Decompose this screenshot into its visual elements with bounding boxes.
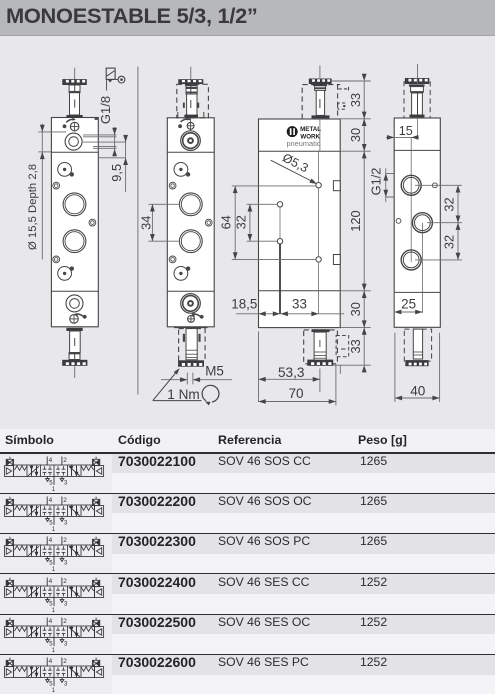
view 2 mounting hole upper left <box>169 182 176 189</box>
svg-text:53,3: 53,3 <box>278 365 304 380</box>
title bar MONOESTABLE 5/3, 1/2" <box>0 0 495 36</box>
view 4 port 1 G1/2 <box>401 175 421 195</box>
view 1 bottom manual lever icon <box>74 313 87 319</box>
table row 5 background bands <box>0 615 112 654</box>
view 3 valve body <box>259 119 341 328</box>
svg-text:3: 3 <box>64 641 68 647</box>
svg-text:2: 2 <box>63 537 67 544</box>
svg-text:40: 40 <box>410 384 426 399</box>
svg-text:2: 2 <box>63 658 67 665</box>
dimensions 64 and 32 <box>219 186 316 260</box>
view 2 mounting hole lower left <box>169 256 176 263</box>
peso 1252 <box>360 576 387 588</box>
view 2 port 2 <box>179 230 202 253</box>
svg-text:G1/2: G1/2 <box>369 168 384 196</box>
svg-text:pneumatic: pneumatic <box>286 139 320 148</box>
referencia SOV 46 SOS CC <box>218 455 311 467</box>
peso 1265 <box>360 455 387 467</box>
codigo 7030022600 <box>118 655 196 669</box>
view 2 valve body <box>167 118 214 327</box>
view 1 bottom solenoid with manual override knob <box>62 328 87 378</box>
referencia SOV 46 SOS OC <box>218 495 311 507</box>
Metal Work pneumatic logo <box>286 119 321 151</box>
svg-text:3: 3 <box>64 561 68 567</box>
table row 2 background bands <box>0 494 112 533</box>
dimension 53,3 <box>259 332 320 403</box>
dimension diameter 15,5 depth 2,8 <box>27 124 66 260</box>
svg-text:2: 2 <box>63 497 67 504</box>
view 2 top solenoid dashed outline <box>177 67 209 118</box>
svg-text:1: 1 <box>52 567 56 572</box>
view 1 mounting hole lower left <box>53 256 60 263</box>
dimension G1/8 port callout <box>83 96 126 158</box>
svg-text:4: 4 <box>49 658 53 665</box>
view 2 bottom manual lever icon <box>191 313 204 319</box>
referencia SOV 46 SOS PC <box>218 535 310 547</box>
table header <box>0 429 495 452</box>
view 1 mounting hole upper left <box>53 182 60 189</box>
view 1 port 4 <box>63 193 86 216</box>
svg-text:64: 64 <box>219 215 234 229</box>
svg-text:3: 3 <box>64 520 68 526</box>
table row 3 separator line <box>0 533 495 534</box>
view 1 pilot exhaust top <box>58 163 72 177</box>
valve symbol row 6 (SOV 46 SES PC) <box>2 655 106 693</box>
table row 1 separator line <box>0 452 495 453</box>
view 3 side notch lower <box>333 255 340 265</box>
dimension G1/2 <box>369 168 409 202</box>
view 1 top manual lever icon <box>63 117 77 128</box>
view 3 hole B <box>277 202 282 207</box>
table row 1 background bands <box>0 454 112 493</box>
svg-text:2: 2 <box>63 457 67 464</box>
dimension 15 <box>386 124 419 140</box>
view 2 pilot port bottom (hatched rim) <box>181 294 201 314</box>
view 1 pilot port circle bottom <box>66 295 83 312</box>
codigo 7030022300 <box>118 534 196 548</box>
dimensions 18,5 and 33 <box>231 297 344 317</box>
svg-text:70: 70 <box>288 386 304 401</box>
view 2 pilot exhaust top <box>174 163 188 177</box>
svg-text:5: 5 <box>49 641 53 647</box>
view 2 top locking screw <box>187 118 194 131</box>
codigo 7030022100 <box>118 454 196 468</box>
table row 6 separator line <box>0 654 495 655</box>
svg-text:32: 32 <box>442 197 457 211</box>
view 3 hole center lines <box>280 151 319 314</box>
view 3 top solenoid dashed outline <box>302 79 348 120</box>
torque note 1 Nm <box>153 367 219 406</box>
dimension 25 <box>394 292 422 316</box>
view 4 top solenoid dashed outline <box>404 64 430 118</box>
svg-text:G1/8: G1/8 <box>98 96 113 124</box>
view 2 pilot port top (hatched rim) <box>181 131 201 151</box>
referencia SOV 46 SES CC <box>218 576 309 588</box>
header Peso <box>358 433 407 447</box>
svg-text:33: 33 <box>348 339 363 353</box>
peso 1252 <box>360 656 387 668</box>
svg-text:1: 1 <box>52 648 56 653</box>
view 4 bottom solenoid dashed outline <box>404 329 431 366</box>
svg-text:3: 3 <box>64 480 68 486</box>
view 3 hole D <box>316 257 321 262</box>
view 4 valve body <box>394 118 440 327</box>
view 4 port center lines <box>411 118 422 313</box>
view 1 pilot exhaust bottom <box>58 267 72 281</box>
table row 3 background bands <box>0 534 112 573</box>
view 4 breather hole right <box>432 183 437 188</box>
svg-text:4: 4 <box>49 457 53 464</box>
svg-text:25: 25 <box>401 297 416 312</box>
svg-text:5: 5 <box>49 520 53 526</box>
svg-text:30: 30 <box>348 128 363 142</box>
dimension M5 <box>161 363 232 384</box>
svg-text:Ø 15,5 Depth 2,8: Ø 15,5 Depth 2,8 <box>27 164 39 250</box>
view 4 port 3 G1/2 <box>412 213 432 233</box>
svg-text:4: 4 <box>49 497 53 504</box>
svg-text:1: 1 <box>52 486 56 491</box>
codigo 7030022400 <box>118 575 196 589</box>
valve symbol row 2 (SOV 46 SOS OC) <box>2 494 106 532</box>
dimension 40 <box>395 333 440 402</box>
valve symbol row 3 (SOV 46 SOS PC) <box>2 534 106 572</box>
svg-text:5: 5 <box>49 682 53 688</box>
svg-text:1 Nm: 1 Nm <box>167 387 199 402</box>
view 3 hole A (5,3) <box>316 183 321 188</box>
header Simbolo <box>5 433 54 447</box>
svg-text:15: 15 <box>399 124 413 138</box>
svg-text:2: 2 <box>63 618 67 625</box>
svg-text:M5: M5 <box>205 363 224 378</box>
svg-text:3: 3 <box>64 601 68 607</box>
dimension diameter 5,3 <box>271 151 318 186</box>
svg-text:32: 32 <box>233 215 248 229</box>
svg-text:METAL: METAL <box>300 126 321 133</box>
view 1 pilot port circle top <box>65 133 82 150</box>
peso 1265 <box>360 495 387 507</box>
view 4 breather hole left <box>396 219 401 224</box>
svg-text:33: 33 <box>292 297 307 312</box>
view 2 top manual lever icon <box>178 117 191 128</box>
dimension 70 <box>259 366 341 406</box>
view 1 valve body <box>51 118 98 327</box>
codigo 7030022500 <box>118 615 196 629</box>
table row 6 background bands <box>0 655 112 694</box>
view 2 port 4 <box>179 193 202 216</box>
codigo 7030022200 <box>118 494 196 508</box>
dimensions 32 and 32 <box>415 185 462 260</box>
svg-text:33: 33 <box>348 93 363 107</box>
view 1 top solenoid with manual override knob <box>62 68 87 118</box>
technical drawing area <box>0 0 495 428</box>
svg-text:1: 1 <box>52 527 56 532</box>
view 1 flag indicator circle <box>118 76 125 83</box>
view 2 mounting hole right <box>205 219 212 226</box>
referencia SOV 46 SES OC <box>218 616 310 628</box>
dimension 34 <box>139 204 180 241</box>
valve symbol row 5 (SOV 46 SES OC) <box>2 615 106 653</box>
view 1 torque flag symbol <box>106 68 118 90</box>
svg-text:4: 4 <box>49 578 53 585</box>
svg-text:32: 32 <box>442 235 457 249</box>
view 1 body corner mark <box>95 117 98 120</box>
svg-text:1: 1 <box>52 688 56 693</box>
view 1 bottom locking screw <box>70 315 79 324</box>
svg-text:1: 1 <box>52 607 56 612</box>
peso 1252 <box>360 616 387 628</box>
view 1 top locking screw <box>70 122 79 131</box>
table row 4 background bands <box>0 575 112 614</box>
table row 2 separator line <box>0 493 495 494</box>
view 1 port 2 <box>63 230 86 253</box>
svg-text:5: 5 <box>49 561 53 567</box>
table row 4 separator line <box>0 573 495 574</box>
view 2 pilot exhaust bottom <box>174 267 188 281</box>
svg-text:5: 5 <box>49 480 53 486</box>
svg-text:120: 120 <box>348 210 363 231</box>
svg-text:3: 3 <box>64 682 68 688</box>
table row 5 separator line <box>0 614 495 615</box>
dimension 9,5 <box>109 135 128 192</box>
dimensions 33 30 120 30 33 stack <box>332 74 371 373</box>
svg-text:18,5: 18,5 <box>231 297 257 312</box>
valve symbol row 4 (SOV 46 SES CC) <box>2 575 106 613</box>
view 4 port 5 G1/2 <box>401 250 421 270</box>
view 3 bottom solenoid dashed outline <box>304 329 349 366</box>
view 2 bottom locking screw <box>188 316 195 323</box>
svg-text:2: 2 <box>63 578 67 585</box>
header Referencia <box>218 433 281 447</box>
view 3 side notch upper <box>333 181 340 191</box>
view 3 hole C <box>277 239 282 244</box>
view 2 bottom solenoid dashed outline <box>174 328 208 367</box>
svg-text:34: 34 <box>139 216 154 230</box>
view 3 centerline top <box>319 66 321 79</box>
svg-text:5: 5 <box>49 601 53 607</box>
header Codigo <box>118 433 161 447</box>
svg-text:4: 4 <box>49 537 53 544</box>
peso 1265 <box>360 535 387 547</box>
svg-text:4: 4 <box>49 618 53 625</box>
svg-text:9,5: 9,5 <box>109 164 124 182</box>
view 1 mounting hole right <box>89 219 96 226</box>
valve symbol row 1 (SOV 46 SOS CC) <box>2 454 106 492</box>
section divider line <box>137 67 139 395</box>
referencia SOV 46 SES PC <box>218 656 309 668</box>
svg-text:30: 30 <box>348 302 363 316</box>
